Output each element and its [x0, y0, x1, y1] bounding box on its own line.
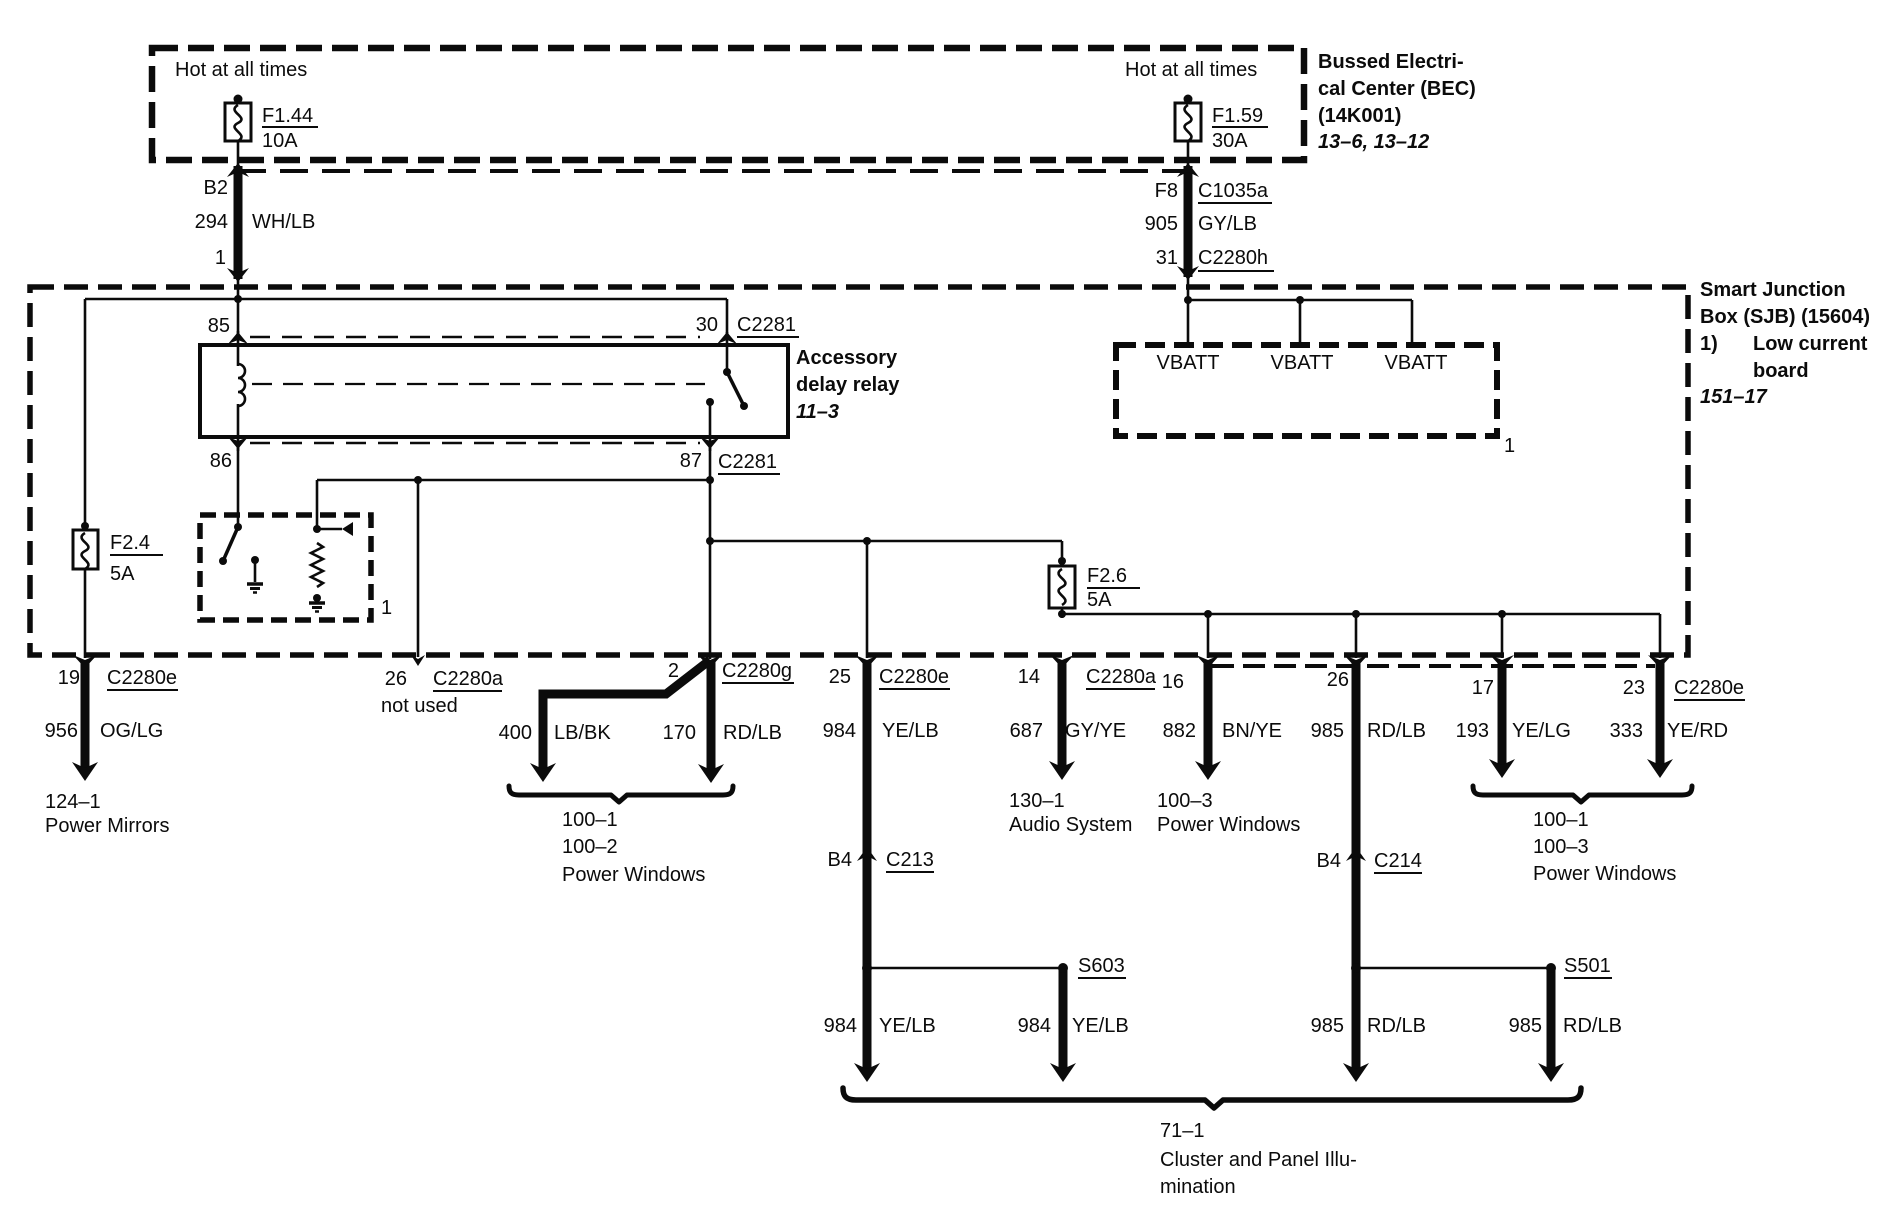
svg-text:GY/LB: GY/LB — [1198, 213, 1257, 235]
svg-text:13–6, 13–12: 13–6, 13–12 — [1318, 131, 1429, 153]
svg-text:151–17: 151–17 — [1700, 386, 1768, 408]
svg-text:130–1: 130–1 — [1009, 790, 1065, 812]
svg-text:11–3: 11–3 — [796, 401, 839, 423]
svg-text:C2281: C2281 — [737, 314, 796, 336]
svg-text:1: 1 — [381, 597, 392, 619]
svg-text:Hot at all times: Hot at all times — [175, 59, 307, 81]
svg-text:YE/LB: YE/LB — [882, 720, 939, 742]
svg-text:B4: B4 — [828, 849, 852, 871]
svg-text:Audio System: Audio System — [1009, 814, 1132, 836]
svg-text:C2280e: C2280e — [1674, 677, 1744, 699]
svg-text:VBATT: VBATT — [1385, 352, 1448, 374]
svg-text:Power Windows: Power Windows — [562, 864, 705, 886]
svg-text:B4: B4 — [1317, 850, 1341, 872]
svg-text:30: 30 — [696, 314, 718, 336]
svg-text:C2280h: C2280h — [1198, 247, 1268, 269]
svg-text:F1.59: F1.59 — [1212, 105, 1263, 127]
svg-text:LB/BK: LB/BK — [554, 722, 611, 744]
svg-text:mination: mination — [1160, 1176, 1236, 1198]
svg-text:C214: C214 — [1374, 850, 1422, 872]
svg-text:RD/LB: RD/LB — [1563, 1015, 1622, 1037]
svg-text:WH/LB: WH/LB — [252, 211, 315, 233]
svg-text:F1.44: F1.44 — [262, 105, 313, 127]
svg-text:board: board — [1753, 360, 1809, 382]
svg-text:1): 1) — [1700, 333, 1718, 355]
svg-text:14: 14 — [1018, 666, 1040, 688]
svg-text:984: 984 — [823, 720, 856, 742]
svg-text:905: 905 — [1145, 213, 1178, 235]
svg-text:882: 882 — [1163, 720, 1196, 742]
svg-text:1: 1 — [1504, 435, 1515, 457]
svg-text:C213: C213 — [886, 849, 934, 871]
svg-text:RD/LB: RD/LB — [1367, 720, 1426, 742]
svg-text:Power Windows: Power Windows — [1157, 814, 1300, 836]
svg-text:26: 26 — [385, 668, 407, 690]
svg-text:cal Center (BEC): cal Center (BEC) — [1318, 78, 1476, 100]
svg-text:YE/RD: YE/RD — [1667, 720, 1728, 742]
svg-text:RD/LB: RD/LB — [723, 722, 782, 744]
svg-text:BN/YE: BN/YE — [1222, 720, 1282, 742]
svg-text:100–2: 100–2 — [562, 836, 618, 858]
svg-text:C2280a: C2280a — [1086, 666, 1157, 688]
svg-text:S603: S603 — [1078, 955, 1125, 977]
svg-text:984: 984 — [824, 1015, 857, 1037]
svg-text:400: 400 — [499, 722, 532, 744]
svg-text:30A: 30A — [1212, 130, 1248, 152]
svg-text:YE/LG: YE/LG — [1512, 720, 1571, 742]
svg-text:86: 86 — [210, 450, 232, 472]
svg-text:VBATT: VBATT — [1271, 352, 1334, 374]
svg-text:Cluster and Panel Illu-: Cluster and Panel Illu- — [1160, 1149, 1357, 1171]
svg-text:C2281: C2281 — [718, 451, 777, 473]
svg-text:OG/LG: OG/LG — [100, 720, 163, 742]
svg-text:F8: F8 — [1155, 180, 1178, 202]
svg-text:16: 16 — [1162, 671, 1184, 693]
svg-text:100–3: 100–3 — [1533, 836, 1589, 858]
svg-text:YE/LB: YE/LB — [1072, 1015, 1129, 1037]
svg-text:C2280e: C2280e — [107, 667, 177, 689]
svg-text:Hot at all times: Hot at all times — [1125, 59, 1257, 81]
svg-text:985: 985 — [1311, 720, 1344, 742]
svg-text:100–3: 100–3 — [1157, 790, 1213, 812]
svg-text:193: 193 — [1456, 720, 1489, 742]
svg-text:294: 294 — [195, 211, 228, 233]
svg-text:Power Mirrors: Power Mirrors — [45, 815, 169, 837]
svg-text:YE/LB: YE/LB — [879, 1015, 936, 1037]
svg-text:10A: 10A — [262, 130, 298, 152]
svg-text:Accessory: Accessory — [796, 347, 898, 369]
svg-text:F2.4: F2.4 — [110, 532, 150, 554]
svg-text:26: 26 — [1327, 669, 1349, 691]
svg-text:100–1: 100–1 — [562, 809, 618, 831]
svg-text:100–1: 100–1 — [1533, 809, 1589, 831]
svg-text:985: 985 — [1311, 1015, 1344, 1037]
svg-text:5A: 5A — [1087, 589, 1112, 611]
svg-text:956: 956 — [45, 720, 78, 742]
svg-text:124–1: 124–1 — [45, 791, 101, 813]
svg-text:984: 984 — [1018, 1015, 1051, 1037]
svg-text:GY/YE: GY/YE — [1065, 720, 1126, 742]
svg-text:19: 19 — [58, 667, 80, 689]
svg-text:(14K001): (14K001) — [1318, 105, 1401, 127]
svg-text:985: 985 — [1509, 1015, 1542, 1037]
svg-text:687: 687 — [1010, 720, 1043, 742]
svg-text:Low current: Low current — [1753, 333, 1868, 355]
svg-text:71–1: 71–1 — [1160, 1120, 1205, 1142]
svg-text:C2280g: C2280g — [722, 660, 792, 682]
svg-text:delay relay: delay relay — [796, 374, 900, 396]
svg-text:RD/LB: RD/LB — [1367, 1015, 1426, 1037]
svg-text:2: 2 — [668, 660, 679, 682]
svg-text:170: 170 — [663, 722, 696, 744]
svg-text:85: 85 — [208, 315, 230, 337]
svg-text:C2280e: C2280e — [879, 666, 949, 688]
svg-text:87: 87 — [680, 450, 702, 472]
svg-text:25: 25 — [829, 666, 851, 688]
svg-text:C1035a: C1035a — [1198, 180, 1269, 202]
svg-text:Smart Junction: Smart Junction — [1700, 279, 1846, 301]
svg-text:333: 333 — [1610, 720, 1643, 742]
svg-text:B2: B2 — [204, 177, 228, 199]
svg-text:1: 1 — [215, 247, 226, 269]
svg-text:Power Windows: Power Windows — [1533, 863, 1676, 885]
svg-text:5A: 5A — [110, 563, 135, 585]
svg-text:not used: not used — [381, 695, 458, 717]
svg-text:23: 23 — [1623, 677, 1645, 699]
svg-text:Bussed Electri-: Bussed Electri- — [1318, 51, 1464, 73]
svg-text:Box (SJB) (15604): Box (SJB) (15604) — [1700, 306, 1870, 328]
svg-text:C2280a: C2280a — [433, 668, 504, 690]
svg-text:S501: S501 — [1564, 955, 1611, 977]
svg-text:17: 17 — [1472, 677, 1494, 699]
svg-text:F2.6: F2.6 — [1087, 565, 1127, 587]
svg-text:VBATT: VBATT — [1157, 352, 1220, 374]
svg-text:31: 31 — [1156, 247, 1178, 269]
